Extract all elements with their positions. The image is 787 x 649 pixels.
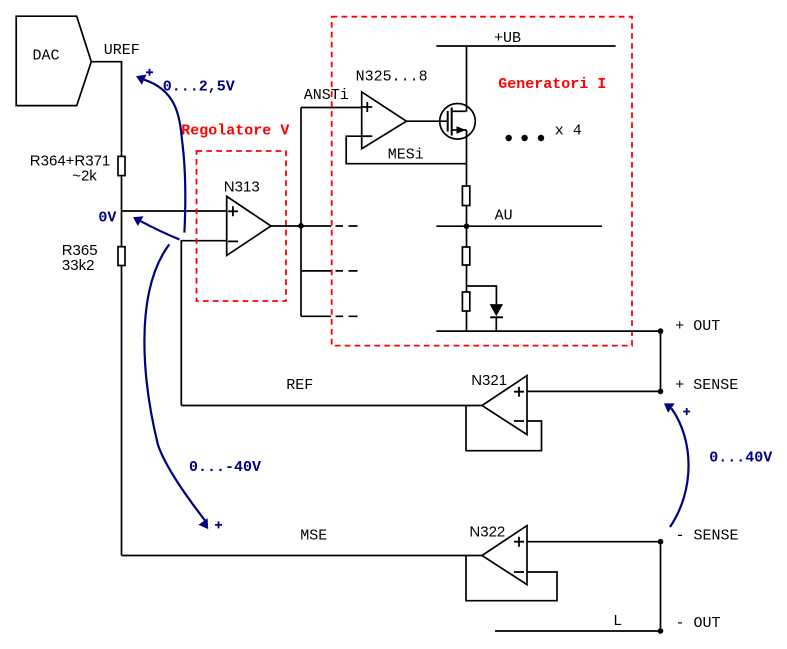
arrow 0...-40V curve (144, 244, 261, 529)
svg-text:REF: REF (286, 377, 313, 394)
svg-text:0V: 0V (98, 210, 116, 227)
wire 0V node to N313 + input (122, 210, 227, 212)
svg-text:N325...8: N325...8 (356, 69, 428, 86)
wire +SENSE to N321 + input (527, 390, 661, 392)
svg-text:N313: N313 (224, 179, 260, 196)
wire dashed stub row 1 (336, 225, 358, 227)
wire REF line (181, 405, 482, 407)
op-amp U N325 (356, 69, 428, 149)
wire vertical bus (300, 108, 302, 317)
svg-text:0...2,5V: 0...2,5V (163, 79, 235, 96)
svg-text:Generatori I: Generatori I (498, 76, 606, 93)
wire -SENSE to -OUT (660, 542, 662, 631)
svg-text:+UB: +UB (494, 30, 521, 47)
wire N325 output to gate (406, 120, 447, 122)
wire N325 feedback MESi (346, 136, 466, 164)
junction dot N313 output bus (298, 223, 304, 229)
wire N321 feedback (466, 406, 542, 451)
wire bottom rail to + OUT (436, 330, 660, 332)
svg-text:L: L (613, 613, 622, 630)
resistor R365 (62, 242, 125, 274)
svg-text:0...40V: 0...40V (709, 450, 772, 467)
junction dot AU (464, 223, 470, 229)
resistor R364+R371 (30, 153, 125, 185)
svg-text:- OUT: - OUT (676, 615, 721, 632)
svg-text:MSE: MSE (300, 528, 327, 545)
transistor MOSFET (440, 104, 476, 140)
svg-text:Regolatore V: Regolatore V (181, 123, 289, 140)
wire MOSFET drain to +UB rail (466, 46, 468, 111)
resistor bottom (462, 292, 469, 311)
svg-text:+ OUT: + OUT (675, 318, 720, 335)
svg-text:MESi: MESi (388, 147, 424, 164)
resistor source resistor (462, 186, 469, 206)
wire DAC output to left rail (91, 62, 121, 157)
wire MSE line (122, 555, 483, 557)
wire +OUT to +SENSE (660, 331, 662, 391)
arrow 0...2,5V curve (136, 69, 235, 233)
wire -SENSE to N322 + input (527, 541, 661, 543)
junction dot - OUT (658, 628, 664, 634)
wire left rail down to MSE corner (121, 266, 123, 556)
wire N313 - input (181, 241, 226, 406)
svg-text:N322: N322 (469, 524, 505, 541)
dashed box Generatori I (332, 17, 632, 346)
svg-text:UREF: UREF (104, 42, 140, 59)
arrow to 0V node (133, 216, 179, 239)
svg-text:N321: N321 (471, 372, 507, 389)
wire AU line (436, 225, 602, 227)
DAC block (16, 16, 91, 105)
wire resistor to rail (466, 311, 468, 331)
svg-text:33k2: 33k2 (62, 257, 95, 274)
dashed box Regolatore V (197, 151, 287, 301)
wire R364 to 0V node (121, 176, 123, 211)
wire branch to diode (467, 286, 497, 304)
wire +UB rail (436, 45, 615, 47)
wire -OUT line (495, 630, 661, 632)
wire bus stub row 3 (301, 315, 331, 317)
junction dot - SENSE (658, 539, 664, 545)
wire N313 output (271, 225, 331, 227)
svg-text:0...-40V: 0...-40V (189, 459, 261, 476)
svg-text:+ SENSE: + SENSE (675, 377, 738, 394)
wire left rail to R365 (121, 211, 123, 247)
op-amp U N313 (224, 179, 271, 256)
wire N322 feedback (466, 556, 557, 601)
wire to AU node (466, 206, 468, 248)
op-amp U N321 (471, 372, 527, 435)
svg-text:x 4: x 4 (555, 123, 582, 140)
resistor below AU (462, 247, 469, 265)
svg-text:R364+R371: R364+R371 (30, 153, 110, 170)
wire MOSFET source down (466, 130, 468, 186)
op-amp U N322 (469, 524, 527, 585)
diode (490, 304, 503, 331)
svg-text:AU: AU (495, 208, 513, 225)
svg-text:~2k: ~2k (72, 168, 97, 185)
wire ANSTi to N325 + input (301, 107, 362, 109)
svg-text:- SENSE: - SENSE (676, 528, 739, 545)
svg-text:DAC: DAC (33, 48, 60, 65)
wire bus stub row 2 (301, 270, 331, 272)
label x 4 dots (506, 123, 582, 142)
junction dot + OUT (658, 328, 664, 334)
svg-text:ANSTi: ANSTi (304, 87, 349, 104)
wire resistor to branch (466, 265, 468, 292)
arrow 0...40V curve (664, 403, 772, 527)
junction dot + SENSE (658, 389, 664, 395)
